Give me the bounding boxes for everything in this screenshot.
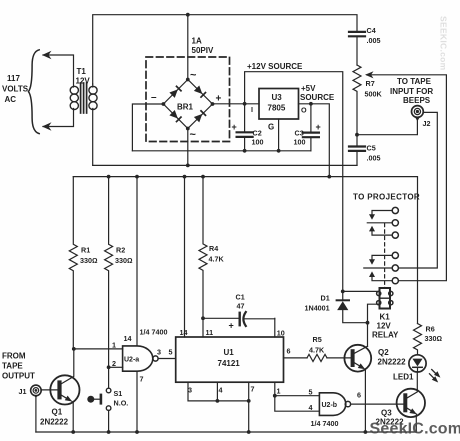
svg-text:100: 100 (252, 138, 264, 147)
wire +5V output (299, 104, 330, 177)
voltage regulator U3 7805 (251, 89, 307, 151)
node C3 +5V junction (309, 102, 313, 106)
svg-text:S1: S1 (114, 389, 123, 398)
svg-text:INPUT FOR: INPUT FOR (390, 87, 433, 96)
node C2 ground junction (243, 149, 247, 153)
svg-text:117: 117 (7, 74, 20, 83)
svg-text:BR1: BR1 (177, 103, 194, 112)
svg-text:LED1: LED1 (393, 373, 414, 382)
wire J1 sleeve to ground (35, 398, 37, 432)
node U3 ground junction (277, 149, 281, 153)
svg-text:4.7K: 4.7K (209, 255, 225, 264)
node U1 pin7 junction (247, 399, 251, 403)
svg-text:1: 1 (112, 341, 116, 350)
bridge rectifier BR1 diamond (162, 78, 215, 131)
svg-text:1N4001: 1N4001 (305, 304, 330, 313)
one-shot U1 74121 (157, 328, 291, 396)
node bridge-top junction (186, 13, 190, 17)
svg-text:12V: 12V (76, 77, 91, 86)
svg-text:.005: .005 (367, 154, 381, 163)
node D1 anode junction (366, 321, 370, 325)
node R7 C5 J2 junction (355, 133, 359, 137)
wire R7 wiper to contact (367, 75, 447, 281)
svg-text:50PIV: 50PIV (192, 46, 214, 55)
wire J2 sleeve to R7 junction (357, 121, 417, 135)
relay contact arm B upper (372, 255, 392, 259)
svg-text:2N2222: 2N2222 (40, 418, 69, 427)
svg-text:2N2222: 2N2222 (378, 358, 407, 367)
svg-text:+: + (232, 122, 237, 132)
svg-text:R5: R5 (313, 335, 322, 344)
svg-text:2: 2 (112, 359, 116, 368)
svg-text:7: 7 (140, 375, 144, 384)
svg-text:4: 4 (309, 403, 313, 412)
svg-text:G: G (268, 123, 274, 132)
relay contact terminal A3 (392, 232, 398, 238)
transistor Q3 2N2222 (376, 372, 425, 432)
diode BR1 bottom-right (194, 110, 207, 123)
node D1 K1 junction (341, 290, 345, 294)
svg-text:330Ω: 330Ω (115, 256, 133, 265)
svg-text:VOLTS: VOLTS (2, 85, 29, 94)
potentiometer R7 (353, 65, 382, 135)
wire bridge top lead (187, 15, 189, 80)
svg-text:~: ~ (190, 129, 197, 141)
svg-text:SeekIC.com: SeekIC.com (370, 421, 460, 438)
svg-text:K1: K1 (380, 313, 391, 322)
svg-text:C4: C4 (367, 26, 376, 35)
capacitor C2 (232, 104, 264, 151)
resistor R1 (69, 177, 97, 349)
svg-text:14: 14 (180, 328, 188, 337)
svg-text:–: – (151, 92, 157, 103)
wire AC/line2 horizontal (93, 164, 357, 166)
diode BR1 top-left (169, 85, 182, 98)
svg-text:5: 5 (309, 387, 313, 396)
svg-text:N.O.: N.O. (114, 399, 129, 408)
+5V distribution rail (73, 177, 417, 324)
relay coil K1 (372, 288, 399, 340)
wire U2-a pin14 (136, 177, 138, 346)
transistor Q1 2N2222 (40, 349, 80, 432)
wire T1 secondary bottom lead (92, 109, 94, 166)
wire U1 pin5 input (158, 358, 176, 360)
svg-text:Q1: Q1 (52, 408, 63, 417)
svg-text:100: 100 (294, 138, 306, 147)
node bridge-bottom junction (186, 164, 190, 168)
bridge rectifier BR1 dashed box (146, 57, 230, 142)
relay contact arm A lower (372, 231, 392, 235)
wire U1 pin7 ground (248, 382, 250, 432)
svg-text:1A: 1A (192, 37, 202, 46)
svg-text:C1: C1 (236, 293, 245, 302)
label TO TAPE INPUT FOR BEEPS (390, 77, 433, 105)
capacitor C4 (349, 26, 381, 65)
capacitor C1 (203, 293, 275, 331)
LED1 (393, 355, 426, 382)
relay contact terminal A1 (392, 207, 398, 213)
svg-text:Q2: Q2 (378, 348, 389, 357)
pushbutton S1 (87, 388, 128, 432)
diode D1 1N4001 (305, 291, 368, 322)
node Q2 emitter ground junction (364, 430, 368, 434)
wire T1 secondary top lead (92, 84, 94, 87)
label FROM TAPE OUTPUT (2, 352, 35, 381)
svg-text:TO TAPE: TO TAPE (397, 77, 432, 86)
arrow R7 wiper head (365, 71, 374, 78)
capacitor C5 (349, 135, 381, 166)
wire U2-b pins 4 5 tie (275, 395, 320, 397)
svg-text:SOURCE: SOURCE (300, 93, 335, 102)
svg-text:T1: T1 (77, 67, 87, 76)
svg-text:BEEPS: BEEPS (403, 96, 431, 105)
svg-text:R2: R2 (116, 246, 125, 255)
svg-text:OUTPUT: OUTPUT (2, 372, 35, 381)
svg-text:330Ω: 330Ω (80, 256, 98, 265)
svg-text:1: 1 (277, 387, 281, 396)
svg-text:I: I (251, 105, 253, 114)
node +5V rail junction (327, 175, 331, 179)
svg-text:4.7K: 4.7K (309, 345, 325, 354)
svg-text:SEEKIC.com: SEEKIC.com (439, 16, 449, 71)
wire U1 pin11 (202, 318, 204, 337)
svg-text:C5: C5 (367, 144, 376, 153)
relay contact terminal A2 common (392, 220, 398, 226)
node U1 pin11 C1 junction (201, 316, 205, 320)
svg-text:47: 47 (237, 302, 245, 311)
diode BR1 bottom-left (169, 110, 182, 123)
relay contact terminal B3 (392, 278, 398, 284)
svg-text:R4: R4 (209, 244, 218, 253)
jack J1 (19, 385, 42, 398)
svg-text:.005: .005 (367, 36, 381, 45)
svg-text:U1: U1 (224, 348, 235, 357)
svg-text:Q3: Q3 (381, 409, 392, 418)
resistor R2 (105, 177, 133, 388)
gate U2-b (309, 387, 362, 415)
label BR1 and polarity (151, 70, 222, 142)
svg-text:6: 6 (287, 347, 291, 356)
node U2-a pin14 rail junction (135, 175, 139, 179)
relay contact arm A common line (367, 222, 392, 224)
svg-text:FROM: FROM (2, 352, 26, 361)
ground bottom rail (36, 431, 416, 433)
svg-text:+: + (229, 321, 234, 331)
wire U2-a pin7 (136, 371, 138, 432)
node S1 ground junction (107, 430, 111, 434)
svg-text:12V: 12V (377, 322, 392, 331)
arrow LED emission 2 (430, 374, 435, 379)
svg-text:7805: 7805 (268, 104, 286, 113)
relay contact arm B lower (372, 276, 392, 280)
svg-text:10: 10 (277, 329, 285, 338)
resistor R5 (307, 335, 351, 362)
svg-text:U2-a: U2-a (124, 357, 139, 364)
svg-text:+12V SOURCE: +12V SOURCE (247, 62, 303, 71)
svg-text:O: O (301, 106, 307, 115)
brace 117 VAC (28, 50, 39, 134)
node U2-a pin7 ground junction (135, 430, 139, 434)
svg-text:7: 7 (251, 385, 255, 394)
node Q1 emitter ground junction (71, 430, 75, 434)
svg-text:74121: 74121 (218, 359, 241, 368)
relay contact arm A upper (372, 211, 392, 215)
svg-text:C3: C3 (295, 129, 304, 138)
wire supply ground rail (132, 150, 311, 152)
svg-text:1/4 7400: 1/4 7400 (311, 419, 339, 428)
diode BR1 top-right (194, 85, 207, 98)
node U1 pin4 junction (216, 399, 220, 403)
wire top AC rail (93, 15, 357, 84)
node bridge-plus junction (243, 102, 247, 106)
gate U2-a (112, 334, 158, 384)
wire +12V to K1 top (343, 290, 380, 292)
svg-text:500K: 500K (365, 90, 383, 99)
wire U1 pin6 to R5 (284, 357, 308, 359)
svg-text:330Ω: 330Ω (425, 334, 443, 343)
svg-text:+: + (316, 122, 321, 132)
wire J2 tip to relay common (399, 112, 438, 268)
svg-text:11: 11 (206, 328, 214, 337)
wire U2-a pin1 from Q1 collector (74, 348, 123, 350)
svg-text:6: 6 (357, 391, 361, 400)
node U1 pin14 rail junction (183, 175, 187, 179)
svg-text:U2-b: U2-b (322, 402, 338, 409)
node pin7 ground junction (247, 430, 251, 434)
node U1 pin1 U2-b junction (273, 394, 277, 398)
wire bridge plus output (213, 103, 260, 105)
label +5V SOURCE (300, 84, 335, 102)
node R4 rail junction (201, 175, 205, 179)
svg-text:C2: C2 (253, 129, 262, 138)
svg-text:5: 5 (169, 348, 173, 357)
label 1A 50PIV (192, 37, 214, 56)
dashed actuator link (384, 224, 386, 289)
svg-text:J1: J1 (19, 387, 27, 396)
svg-text:RELAY: RELAY (372, 331, 399, 340)
wire bridge bottom lead (187, 129, 189, 166)
wire U2-a pin2 from S1 (109, 366, 123, 368)
svg-text:3: 3 (157, 348, 161, 357)
arrow LED emission 1 (432, 370, 437, 375)
relay contact terminal B2 common (392, 265, 398, 271)
svg-text:R6: R6 (426, 325, 435, 334)
svg-text:~: ~ (190, 70, 197, 82)
jack J2 (412, 106, 431, 128)
wire K1 bottom to Q2 collector (368, 304, 380, 346)
wire +12V source line (245, 72, 343, 292)
svg-text:U3: U3 (272, 93, 283, 102)
label 117 VOLTS AC (2, 74, 29, 104)
svg-text:D1: D1 (321, 294, 330, 303)
wire U1 pin3 pin4 ground (188, 382, 249, 401)
capacitor C3 (294, 104, 321, 151)
transformer T1 (42, 51, 97, 131)
svg-text:4: 4 (219, 386, 223, 395)
svg-text:+: + (216, 94, 222, 105)
relay contact terminal B1 (392, 252, 398, 258)
node Q1 collector junction (72, 347, 76, 351)
node U2-a pin2 junction (107, 365, 111, 369)
wire bridge minus output (132, 104, 163, 151)
relay contact arm B common line (364, 267, 392, 269)
wire U1 pin1 to U2-b (274, 382, 276, 396)
svg-text:1/4 7400: 1/4 7400 (140, 328, 168, 337)
node R2 rail junction (107, 175, 111, 179)
svg-text:AC: AC (5, 95, 17, 104)
wire C1 right to U1 pin10 (274, 318, 276, 337)
resistor R4 (199, 177, 224, 319)
wire J1 to Q1 base (40, 389, 43, 392)
wire U1 pin14 (184, 177, 186, 337)
svg-text:TO PROJECTOR: TO PROJECTOR (353, 193, 420, 202)
resistor R6 (414, 324, 443, 355)
svg-text:14: 14 (124, 334, 132, 343)
svg-text:R7: R7 (366, 79, 375, 88)
svg-text:+5V: +5V (301, 84, 316, 93)
svg-text:R1: R1 (81, 246, 90, 255)
svg-text:TAPE: TAPE (2, 362, 23, 371)
wire U2-b output to Q3 (351, 403, 404, 405)
transistor Q2 2N2222 (344, 345, 406, 432)
svg-text:J2: J2 (423, 119, 431, 128)
